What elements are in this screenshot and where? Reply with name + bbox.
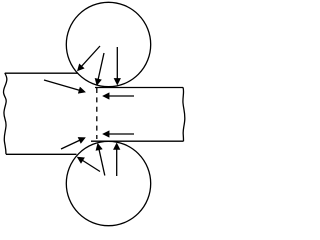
exit plane dashed line xyxy=(96,88,98,139)
arrow E: horizontal back-pull arrow upper xyxy=(104,95,134,97)
arrow C: toward exit point on dashed line xyxy=(97,53,104,85)
bottom roller circle xyxy=(66,141,150,225)
arrow E2: horizontal back-pull arrow lower xyxy=(104,133,134,135)
exit strip top line xyxy=(95,87,183,89)
arrow A: roller centre toward entry bite point xyxy=(78,46,100,70)
exit strip right broken edge xyxy=(183,87,185,141)
entry strip top line xyxy=(5,72,78,74)
arrow A2: bottom roller centre toward entry bite point xyxy=(78,158,100,172)
arrow D2: vertical pressure arrow on lower exit surface xyxy=(116,144,118,176)
entry strip left broken edge xyxy=(4,73,7,154)
arrow B2: flow arrow above lower entry surface xyxy=(61,138,85,149)
arrow B: flow arrow under entry surface xyxy=(44,80,85,92)
top roller circle xyxy=(66,2,150,86)
exit strip bottom line xyxy=(91,140,184,142)
arrow D: vertical pressure arrow on exit surface xyxy=(116,47,118,84)
entry strip bottom line xyxy=(6,153,77,155)
arrow C2: toward exit point on dashed line bottom xyxy=(98,144,105,175)
